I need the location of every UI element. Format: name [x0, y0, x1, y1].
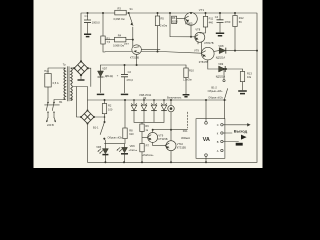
svg-text:0,5 А: 0,5 А — [53, 81, 59, 85]
svg-text:R10: R10 — [189, 69, 194, 73]
svg-text:C4: C4 — [215, 15, 219, 19]
svg-text:В1-1: В1-1 — [93, 125, 99, 129]
svg-text:VT7: VT7 — [124, 42, 129, 46]
svg-text:2 кОм: 2 кОм — [160, 24, 167, 28]
svg-text:КТ817Б: КТ817Б — [199, 60, 208, 64]
svg-text:В1: В1 — [59, 100, 63, 104]
svg-text:1,5кОм: 1,5кОм — [183, 77, 192, 81]
svg-text:R11: R11 — [209, 17, 214, 21]
svg-text:7,5: 7,5 — [107, 40, 111, 44]
svg-text:С: С — [217, 123, 219, 127]
svg-text:КТ805: КТ805 — [185, 22, 193, 26]
svg-text:«Сеть»: «Сеть» — [129, 148, 138, 152]
svg-text:R6: R6 — [172, 16, 176, 20]
svg-text:R7: R7 — [146, 144, 150, 148]
svg-text:КТ315Б: КТ315Б — [158, 137, 167, 141]
svg-text:VD7: VD7 — [102, 66, 108, 70]
svg-text:R5: R5 — [161, 16, 165, 20]
svg-text:R4: R4 — [118, 34, 122, 38]
svg-text:C2: C2 — [128, 70, 132, 74]
svg-text:R13: R13 — [247, 71, 252, 75]
svg-text:R8: R8 — [129, 128, 133, 132]
svg-text:VD9: VD9 — [218, 62, 224, 66]
svg-text:Д814Д: Д814Д — [105, 74, 113, 78]
svg-text:0,068 Ом: 0,068 Ом — [113, 43, 124, 47]
svg-text:4700: 4700 — [225, 20, 231, 24]
svg-text:VT8: VT8 — [195, 27, 200, 31]
svg-text:Выход: Выход — [234, 129, 248, 134]
svg-text:100: 100 — [108, 107, 113, 111]
svg-text:300мкА: 300мкА — [181, 136, 190, 140]
svg-text:В1-2: В1-2 — [211, 85, 217, 89]
svg-text:R9: R9 — [145, 124, 149, 128]
svg-text:VD6: VD6 — [130, 144, 136, 148]
svg-text:Обрыв «КЗ»: Обрыв «КЗ» — [208, 95, 223, 99]
svg-text:R3: R3 — [118, 7, 122, 11]
svg-text:C1: C1 — [85, 14, 89, 18]
svg-text:R12: R12 — [239, 16, 244, 20]
svg-text:Обрыв «КЗ»: Обрыв «КЗ» — [208, 89, 223, 93]
svg-text:440: 440 — [209, 20, 214, 24]
svg-text:S1: S1 — [130, 7, 134, 11]
svg-text:А: А — [217, 149, 219, 153]
svg-text:«Работа»: «Работа» — [142, 153, 154, 157]
svg-text:470,0: 470,0 — [126, 78, 133, 82]
svg-text:0,068 Ом: 0,068 Ом — [114, 17, 125, 21]
svg-text:Пр1: Пр1 — [44, 69, 49, 73]
svg-text:Включатель: Включатель — [167, 95, 182, 99]
svg-text:R2: R2 — [108, 104, 112, 108]
svg-text:В: В — [217, 140, 219, 144]
svg-text:VD8: VD8 — [218, 44, 224, 48]
svg-text:8200: 8200 — [172, 20, 178, 24]
svg-text:VT1: VT1 — [199, 8, 205, 12]
svg-text:910: 910 — [129, 132, 134, 136]
svg-text:VT9: VT9 — [158, 134, 163, 138]
svg-text:VT10: VT10 — [177, 142, 184, 146]
svg-text:VD5: VD5 — [96, 145, 102, 149]
svg-text:Обрыв «КЗ»: Обрыв «КЗ» — [108, 135, 123, 139]
svg-text:КТ817В: КТ817В — [204, 41, 213, 45]
svg-text:КТ315Б: КТ315Б — [177, 146, 186, 150]
svg-text:КД521А: КД521А — [216, 55, 226, 59]
svg-text:КТ315Б: КТ315Б — [130, 56, 139, 60]
svg-text:VT9: VT9 — [194, 48, 199, 52]
svg-text:1000,0: 1000,0 — [92, 21, 100, 25]
svg-text:VA: VA — [203, 137, 210, 143]
svg-text:220 В: 220 В — [47, 123, 54, 127]
